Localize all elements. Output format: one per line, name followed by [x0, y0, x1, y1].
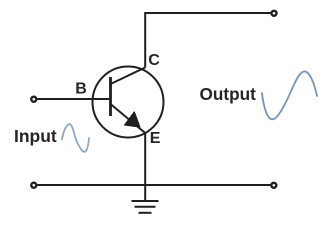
output sine waveform	[262, 71, 317, 119]
svg-text:B: B	[75, 81, 87, 98]
wire: base lead	[37, 98, 111, 100]
wire: top collector rail	[145, 12, 271, 14]
node: bottom right terminal	[271, 183, 276, 188]
svg-text:E: E	[150, 130, 161, 147]
svg-text:Output: Output	[200, 84, 257, 104]
ground	[132, 201, 159, 213]
wire: emitter vertical lead	[144, 133, 146, 200]
svg-text:C: C	[148, 52, 160, 69]
wire: collector vertical lead	[144, 12, 146, 68]
transistor Q1 emitter arrowhead	[125, 112, 140, 127]
transistor Q1 base bar	[109, 77, 112, 116]
node: input terminal (left)	[31, 97, 36, 102]
wire: bottom common rail	[37, 184, 272, 186]
input sine waveform	[62, 124, 89, 152]
svg-text:Input: Input	[14, 126, 57, 146]
transistor Q1 collector diagonal	[111, 68, 146, 85]
transistor Q1 emitter diagonal	[111, 104, 146, 133]
node: output terminal (top right)	[272, 11, 277, 16]
transistor Q1 circle	[93, 67, 164, 138]
node: bottom left terminal	[31, 183, 36, 188]
